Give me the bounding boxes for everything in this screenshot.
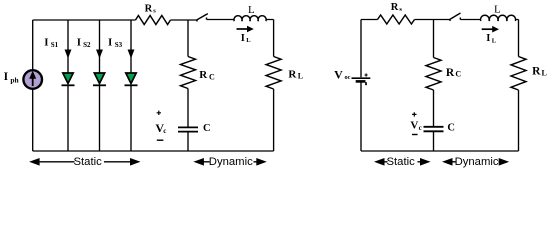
resistor R_C (right) xyxy=(426,58,441,91)
svg-text:R: R xyxy=(288,68,297,80)
label I_L (right) xyxy=(486,33,497,44)
diode D1 xyxy=(62,73,75,85)
label R_L (right) xyxy=(532,66,547,78)
svg-text:C: C xyxy=(209,72,215,81)
inductor L (right) xyxy=(481,15,516,21)
wire: diode branch 3 xyxy=(130,20,132,151)
polarity - (left) xyxy=(157,139,164,141)
battery V_oc xyxy=(352,78,371,85)
svg-text:c: c xyxy=(419,124,422,132)
label I_ph xyxy=(4,71,20,85)
svg-text:I: I xyxy=(77,37,81,49)
svg-text:s: s xyxy=(153,7,156,14)
label I_L (left) xyxy=(241,33,251,44)
label C (right) xyxy=(447,123,455,134)
capacitor C (right) xyxy=(424,127,444,132)
polarity - (right) xyxy=(412,134,418,136)
wire: R_C branch (left) xyxy=(187,20,189,151)
polarity + (right) xyxy=(412,112,416,116)
svg-text:S3: S3 xyxy=(115,41,123,49)
svg-text:V: V xyxy=(410,120,418,132)
label V_c (left) xyxy=(155,121,166,135)
wire: diode branch 2 xyxy=(99,20,101,151)
label Static (left) xyxy=(74,156,103,168)
label R_C (left) xyxy=(199,69,215,81)
label R_C (right) xyxy=(446,67,462,79)
label Static (right) xyxy=(387,156,416,168)
polarity + battery xyxy=(365,73,368,76)
svg-text:C: C xyxy=(447,123,455,134)
wire: R_C branch (right) xyxy=(433,20,435,152)
wire: left circuit bottom rail xyxy=(33,150,274,152)
wire: right circuit left side xyxy=(360,20,362,152)
label I_S2 xyxy=(77,37,91,49)
svg-text:I: I xyxy=(241,33,245,44)
svg-text:C: C xyxy=(455,70,461,79)
wire: right circuit right side xyxy=(518,20,520,152)
label L (right) xyxy=(494,4,501,16)
current arrow I_S2 xyxy=(97,50,103,57)
resistor R_s (left) xyxy=(136,16,171,25)
label Dynamic (left) xyxy=(209,156,253,168)
svg-text:Static: Static xyxy=(74,156,103,168)
svg-text:ph: ph xyxy=(10,76,19,85)
svg-text:R: R xyxy=(532,66,541,78)
svg-text:s: s xyxy=(399,6,402,13)
svg-text:Dynamic: Dynamic xyxy=(209,156,253,168)
svg-text:Dynamic: Dynamic xyxy=(455,156,499,168)
svg-text:R: R xyxy=(391,2,399,13)
label Dynamic (right) xyxy=(455,156,499,168)
svg-text:oc: oc xyxy=(345,74,351,81)
annotation arrow Dynamic (right) xyxy=(442,158,509,166)
label V_c (right) xyxy=(410,120,421,132)
current arrow I_S1 xyxy=(65,50,71,57)
capacitor C (left) xyxy=(178,127,198,131)
svg-text:c: c xyxy=(163,127,166,135)
switch S1 (left) xyxy=(197,14,208,22)
svg-text:I: I xyxy=(486,33,490,44)
svg-text:V: V xyxy=(334,68,343,82)
wire: diode branch 1 xyxy=(67,20,69,151)
annotation arrow Static (left) xyxy=(29,158,140,166)
polarity + (left) xyxy=(157,111,161,115)
label C (left) xyxy=(203,123,211,134)
svg-text:I: I xyxy=(44,37,48,49)
current source I_ph xyxy=(23,70,42,89)
current arrow I_L (right) xyxy=(482,26,499,33)
resistor R_s (right) xyxy=(378,15,415,24)
inductor L (left) xyxy=(234,16,266,22)
resistor R_C (left) xyxy=(181,57,196,89)
current arrow I_S3 xyxy=(128,50,134,57)
label V_oc xyxy=(334,68,350,82)
label R_L (left) xyxy=(288,68,303,80)
current arrow I_L (left) xyxy=(237,26,254,33)
svg-text:S2: S2 xyxy=(83,41,91,49)
label R_s (left) xyxy=(145,4,157,15)
svg-text:L: L xyxy=(492,37,497,44)
label I_S3 xyxy=(108,37,123,49)
svg-text:R: R xyxy=(446,67,455,79)
svg-text:L: L xyxy=(248,4,255,16)
svg-text:R: R xyxy=(199,69,208,81)
resistor R_L (right) xyxy=(511,57,526,91)
resistor R_L (left) xyxy=(266,57,281,90)
wire: left circuit left side xyxy=(32,20,34,151)
svg-text:S1: S1 xyxy=(51,41,59,49)
svg-text:I: I xyxy=(4,71,9,83)
wire: left circuit top rail xyxy=(33,19,274,22)
diode D2 xyxy=(93,73,106,85)
svg-text:L: L xyxy=(494,4,501,16)
svg-text:L: L xyxy=(542,68,547,77)
label L (left) xyxy=(248,4,255,16)
svg-text:L: L xyxy=(298,71,303,80)
svg-text:I: I xyxy=(108,37,112,49)
annotation arrow Static (right) xyxy=(374,158,431,166)
label R_s (right) xyxy=(391,2,403,13)
svg-text:Static: Static xyxy=(387,156,416,168)
wire: right circuit top rail xyxy=(361,19,519,21)
wire: right circuit bottom rail xyxy=(361,150,519,152)
switch S2 (right) xyxy=(450,13,461,21)
annotation arrow Dynamic (left) xyxy=(193,158,266,166)
svg-text:C: C xyxy=(203,123,211,134)
diode D3 xyxy=(125,73,138,85)
label I_S1 xyxy=(44,37,58,49)
svg-text:R: R xyxy=(145,4,153,15)
svg-text:L: L xyxy=(246,37,251,44)
wire: left circuit right side xyxy=(273,20,275,152)
